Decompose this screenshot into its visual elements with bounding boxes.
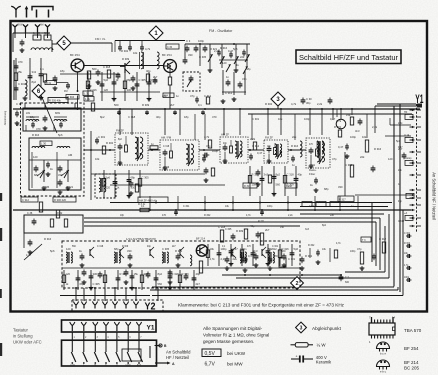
svg-text:U-TA: U-TA — [70, 363, 75, 366]
svg-text:R 305 40k: R 305 40k — [49, 98, 62, 102]
svg-text:4,7k: 4,7k — [291, 102, 297, 106]
svg-text:560: 560 — [92, 67, 97, 71]
svg-text:2: 2 — [295, 281, 298, 287]
svg-text:0,47: 0,47 — [330, 117, 336, 121]
svg-text:100p: 100p — [212, 149, 218, 153]
svg-text:120: 120 — [106, 186, 111, 190]
svg-text:R 306 220: R 306 220 — [54, 198, 67, 202]
svg-text:18p: 18p — [30, 115, 35, 119]
svg-text:470: 470 — [212, 115, 217, 119]
svg-text:Alle Spannungen mit Digital-: Alle Spannungen mit Digital- — [203, 326, 263, 331]
svg-text:2,2k: 2,2k — [250, 137, 256, 141]
svg-text:2k7: 2k7 — [153, 75, 158, 79]
svg-text:5p6: 5p6 — [104, 78, 109, 82]
svg-text:10k: 10k — [95, 157, 100, 161]
svg-text:120: 120 — [66, 272, 71, 276]
svg-text:R 302: R 302 — [305, 254, 313, 258]
svg-text:R 302: R 302 — [404, 243, 411, 245]
svg-text:5p6: 5p6 — [106, 176, 111, 180]
svg-text:40p: 40p — [298, 173, 303, 177]
svg-text:100p: 100p — [404, 277, 410, 279]
svg-text:10k: 10k — [133, 51, 138, 55]
svg-text:C 301: C 301 — [272, 246, 279, 248]
svg-text:3n3: 3n3 — [305, 228, 310, 231]
svg-text:22k: 22k — [162, 94, 167, 98]
svg-text:R 309: R 309 — [142, 103, 150, 107]
svg-text:R 302: R 302 — [121, 49, 129, 53]
svg-text:68p: 68p — [246, 67, 251, 71]
svg-text:68p: 68p — [114, 247, 119, 251]
svg-text:An Schaltbild NF / Netzteil: An Schaltbild NF / Netzteil — [432, 172, 437, 220]
svg-text:5p6: 5p6 — [50, 249, 55, 253]
svg-text:BF 214: BF 214 — [196, 237, 205, 241]
svg-text:TBA 570: TBA 570 — [404, 328, 422, 333]
svg-text:R 302: R 302 — [106, 141, 114, 145]
svg-text:Filter: Filter — [309, 172, 315, 176]
svg-text:A: A — [172, 362, 175, 366]
svg-text:AM / FM: AM / FM — [161, 136, 172, 140]
svg-text:47p: 47p — [242, 77, 247, 81]
svg-text:4,7k: 4,7k — [336, 119, 342, 123]
svg-text:M: M — [94, 364, 96, 366]
svg-text:e b c: e b c — [380, 370, 387, 374]
svg-text:600: 600 — [345, 281, 350, 284]
svg-text:R 316: R 316 — [282, 247, 290, 251]
svg-text:15k: 15k — [134, 272, 139, 276]
svg-text:¼ W: ¼ W — [317, 342, 327, 347]
svg-text:C 30: C 30 — [167, 46, 173, 49]
svg-text:100p: 100p — [304, 117, 310, 121]
svg-text:0,1: 0,1 — [198, 103, 202, 107]
svg-text:330: 330 — [188, 53, 193, 57]
svg-text:R 302: R 302 — [265, 102, 273, 106]
svg-text:330: 330 — [338, 185, 343, 189]
svg-text:5p6: 5p6 — [233, 47, 238, 51]
svg-text:C 301: C 301 — [309, 165, 316, 167]
svg-text:2,2k: 2,2k — [317, 102, 323, 106]
svg-text:100p: 100p — [198, 39, 204, 43]
svg-text:C 301: C 301 — [18, 82, 26, 86]
svg-text:FM: FM — [64, 90, 67, 93]
svg-text:R 315: R 315 — [244, 185, 251, 188]
svg-text:FM ZF: FM ZF — [116, 129, 124, 133]
svg-text:+: + — [296, 355, 298, 359]
svg-text:R 309: R 309 — [182, 272, 190, 276]
svg-text:68p: 68p — [80, 282, 85, 286]
svg-text:R 321: R 321 — [120, 272, 128, 276]
svg-text:C 305: C 305 — [142, 176, 150, 180]
svg-text:C 31: C 31 — [16, 102, 22, 106]
svg-text:18p: 18p — [120, 214, 125, 217]
svg-text:FM / VL: FM / VL — [95, 37, 106, 41]
svg-text:Keramik: Keramik — [316, 360, 332, 365]
svg-text:4,7k: 4,7k — [246, 214, 251, 217]
svg-text:4,7k: 4,7k — [210, 257, 216, 261]
svg-text:5p6: 5p6 — [58, 133, 63, 137]
svg-text:Klammerwerte: bei C 213 und F3: Klammerwerte: bei C 213 und F301 und für… — [178, 303, 345, 308]
svg-text:L 31: L 31 — [84, 91, 90, 95]
svg-text:C 305: C 305 — [42, 185, 50, 189]
svg-text:gegen Masse gemessen.: gegen Masse gemessen. — [203, 339, 254, 344]
svg-text:in Stellung: in Stellung — [13, 334, 33, 339]
svg-text:Abstimmung: Abstimmung — [3, 110, 7, 125]
svg-text:R 309: R 309 — [122, 246, 129, 248]
svg-text:C 312: C 312 — [379, 237, 387, 241]
svg-text:FM - Oszillator: FM - Oszillator — [209, 29, 233, 33]
svg-text:AM ZF: AM ZF — [221, 133, 229, 137]
svg-text:8p2: 8p2 — [276, 173, 281, 177]
svg-text:560: 560 — [114, 103, 119, 107]
svg-text:4,7k: 4,7k — [26, 254, 31, 257]
svg-text:1n: 1n — [151, 142, 154, 146]
svg-text:Y1: Y1 — [147, 325, 155, 332]
svg-text:C 305: C 305 — [162, 247, 170, 251]
svg-text:47p: 47p — [244, 257, 249, 261]
svg-text:2k7: 2k7 — [170, 103, 175, 107]
svg-text:4,7k: 4,7k — [336, 242, 341, 245]
svg-text:R 31: R 31 — [46, 82, 52, 85]
svg-text:470: 470 — [162, 214, 167, 217]
svg-text:8p2: 8p2 — [158, 272, 163, 276]
svg-text:47p: 47p — [357, 247, 362, 251]
svg-text:40p: 40p — [250, 224, 255, 228]
svg-text:R 316: R 316 — [44, 237, 52, 241]
svg-text:BF 214: BF 214 — [404, 360, 419, 365]
svg-text:120: 120 — [388, 157, 393, 161]
svg-text:22k: 22k — [292, 135, 297, 139]
svg-text:AUS: AUS — [137, 363, 142, 366]
svg-text:R 321: R 321 — [258, 220, 265, 223]
svg-text:3n3: 3n3 — [144, 272, 149, 276]
svg-text:L 30: L 30 — [41, 142, 47, 146]
svg-text:MW: MW — [55, 111, 60, 115]
svg-text:An Schaltbild: An Schaltbild — [166, 350, 191, 355]
svg-text:2,2k: 2,2k — [288, 214, 293, 217]
svg-text:BF 254: BF 254 — [162, 53, 172, 57]
svg-text:C 3: C 3 — [186, 39, 191, 43]
svg-text:1n: 1n — [292, 163, 295, 167]
svg-text:AM: AM — [40, 24, 44, 27]
svg-text:R 316: R 316 — [220, 46, 228, 50]
svg-text:R 316: R 316 — [374, 147, 382, 151]
svg-text:3n3: 3n3 — [355, 129, 360, 133]
svg-text:1n: 1n — [176, 94, 179, 98]
svg-text:C 38: C 38 — [27, 212, 33, 215]
svg-text:C 305: C 305 — [93, 282, 101, 286]
svg-text:100p: 100p — [350, 135, 356, 139]
svg-text:470: 470 — [273, 254, 278, 258]
svg-text:4,7k: 4,7k — [204, 135, 210, 139]
svg-text:U 14: U 14 — [404, 134, 410, 137]
svg-text:Abgleichpunkt: Abgleichpunkt — [312, 326, 342, 331]
svg-text:8p2: 8p2 — [100, 115, 105, 119]
svg-text:120: 120 — [33, 155, 38, 159]
svg-text:47p: 47p — [332, 157, 337, 161]
svg-text:C 301: C 301 — [98, 135, 106, 139]
svg-text:bei UKW: bei UKW — [227, 351, 246, 356]
svg-text:BF 254: BF 254 — [404, 346, 419, 351]
svg-text:Y2: Y2 — [145, 301, 156, 312]
svg-text:1,2k: 1,2k — [85, 97, 91, 101]
svg-text:10k: 10k — [278, 117, 283, 121]
svg-text:C 312: C 312 — [345, 163, 353, 167]
svg-text:68p: 68p — [324, 187, 329, 191]
svg-text:0,47: 0,47 — [338, 145, 344, 149]
svg-text:C 318: C 318 — [163, 146, 170, 148]
svg-text:2k7: 2k7 — [196, 282, 201, 286]
svg-text:R 302: R 302 — [334, 125, 342, 129]
svg-text:30p: 30p — [306, 101, 311, 105]
svg-text:120: 120 — [104, 88, 109, 92]
svg-text:3: 3 — [300, 325, 303, 331]
svg-text:0,1: 0,1 — [40, 67, 44, 71]
svg-text:R 316: R 316 — [32, 133, 40, 137]
svg-text:R 309: R 309 — [122, 57, 130, 61]
svg-text:C 301: C 301 — [404, 233, 411, 235]
svg-text:100p: 100p — [267, 205, 273, 208]
svg-text:5p6: 5p6 — [294, 247, 299, 251]
svg-text:560: 560 — [276, 183, 281, 187]
svg-text:330: 330 — [93, 272, 98, 276]
svg-text:+A: +A — [404, 212, 407, 215]
svg-text:C 318: C 318 — [287, 173, 295, 177]
svg-text:HF / Netzteil: HF / Netzteil — [166, 355, 189, 360]
svg-text:BC 205: BC 205 — [404, 366, 420, 371]
svg-text:6...98: 6...98 — [33, 31, 40, 35]
svg-text:470: 470 — [36, 127, 41, 131]
svg-text:Schaltbild HF/ZF und Tastatur: Schaltbild HF/ZF und Tastatur — [299, 53, 399, 62]
svg-text:Voltmeter Ri ≧ 1 MΩ, ohne Sign: Voltmeter Ri ≧ 1 MΩ, ohne Signal — [203, 332, 269, 337]
svg-text:22k: 22k — [360, 155, 365, 159]
svg-text:AM ZF 460 kHz: AM ZF 460 kHz — [139, 198, 158, 202]
svg-text:40p: 40p — [196, 272, 201, 276]
svg-text:15k: 15k — [18, 70, 23, 74]
svg-text:C 312: C 312 — [22, 198, 29, 202]
svg-text:2,2k: 2,2k — [221, 257, 227, 261]
svg-text:AM: AM — [68, 153, 73, 157]
svg-text:FM ZF: FM ZF — [265, 136, 273, 140]
svg-text:3n3: 3n3 — [32, 70, 37, 74]
svg-text:R 302: R 302 — [308, 244, 315, 247]
svg-text:40p: 40p — [156, 115, 161, 119]
svg-text:UKW: UKW — [17, 25, 23, 27]
svg-text:0,47: 0,47 — [257, 151, 263, 155]
svg-text:C 318: C 318 — [128, 115, 136, 119]
svg-text:560: 560 — [158, 282, 163, 286]
svg-text:6,7V: 6,7V — [205, 362, 216, 368]
svg-text:R 321: R 321 — [66, 185, 74, 189]
svg-text:C 301: C 301 — [252, 117, 260, 121]
svg-text:2k7: 2k7 — [265, 228, 270, 232]
svg-text:C 3: C 3 — [345, 276, 349, 279]
svg-text:0,5V: 0,5V — [205, 351, 216, 357]
svg-text:LW: LW — [26, 111, 30, 115]
svg-text:1n: 1n — [226, 75, 229, 79]
svg-text:C 318: C 318 — [97, 246, 104, 248]
svg-text:15k: 15k — [346, 113, 351, 117]
svg-text:C 301: C 301 — [183, 205, 190, 208]
svg-text:18p: 18p — [184, 115, 189, 119]
svg-text:C 312: C 312 — [398, 221, 405, 223]
svg-text:R 316: R 316 — [291, 144, 299, 148]
svg-text:R 309: R 309 — [163, 167, 170, 169]
svg-text:b c e: b c e — [380, 352, 387, 356]
svg-text:bei MW: bei MW — [227, 362, 243, 367]
svg-text:Ratio: Ratio — [286, 185, 292, 188]
svg-text:10k: 10k — [210, 247, 215, 251]
svg-text:10k: 10k — [362, 135, 367, 139]
svg-text:R 302: R 302 — [204, 214, 211, 217]
svg-text:40p: 40p — [146, 69, 151, 73]
svg-text:3n3: 3n3 — [264, 173, 269, 177]
svg-text:Festsp: Festsp — [404, 157, 412, 160]
svg-text:C 30: C 30 — [306, 97, 312, 101]
svg-text:47p: 47p — [190, 94, 195, 98]
svg-text:MHz: MHz — [44, 31, 50, 35]
svg-text:120: 120 — [66, 247, 71, 251]
svg-text:100p: 100p — [350, 250, 356, 253]
svg-text:C 305: C 305 — [139, 78, 147, 82]
svg-text:1/14 AN/TBA(TBA570): 1/14 AN/TBA(TBA570) — [126, 237, 156, 241]
svg-text:C 305: C 305 — [199, 55, 207, 59]
svg-text:18p: 18p — [60, 69, 65, 73]
svg-text:R 321: R 321 — [210, 47, 218, 51]
svg-text:330: 330 — [127, 249, 132, 253]
svg-text:C 318: C 318 — [103, 65, 111, 69]
svg-text:120: 120 — [222, 61, 227, 65]
svg-text:470: 470 — [18, 60, 23, 64]
svg-text:14: 14 — [392, 316, 396, 320]
svg-text:Tastatur: Tastatur — [13, 328, 29, 333]
svg-text:330: 330 — [127, 88, 132, 92]
svg-text:BF 254: BF 254 — [70, 53, 80, 57]
svg-text:R 309: R 309 — [236, 229, 244, 233]
svg-text:8p2: 8p2 — [32, 80, 37, 84]
svg-text:4,7k: 4,7k — [145, 47, 151, 51]
svg-text:8p2: 8p2 — [322, 224, 327, 227]
svg-text:5p6: 5p6 — [396, 139, 401, 143]
svg-text:UKW oder AFC: UKW oder AFC — [13, 340, 42, 345]
svg-text:C 305: C 305 — [225, 228, 232, 231]
svg-text:68p: 68p — [131, 176, 136, 180]
